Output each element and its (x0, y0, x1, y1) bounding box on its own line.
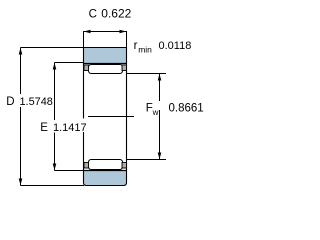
svg-text:D: D (6, 96, 14, 108)
svg-text:min: min (138, 45, 152, 55)
svg-text:1.5748: 1.5748 (20, 96, 53, 108)
svg-text:E: E (40, 122, 48, 134)
svg-text:0.0118: 0.0118 (159, 40, 192, 52)
svg-text:w: w (152, 108, 159, 117)
svg-text:C: C (89, 9, 97, 21)
svg-text:0.8661: 0.8661 (169, 103, 204, 115)
svg-text:1.1417: 1.1417 (53, 122, 87, 134)
svg-text:r: r (134, 40, 138, 52)
svg-text:0.622: 0.622 (101, 7, 131, 21)
